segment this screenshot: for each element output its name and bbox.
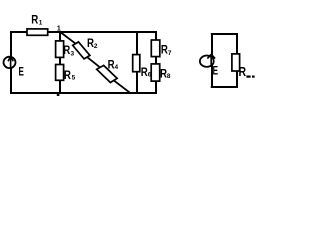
wire branch R6 vertical [136, 31, 138, 93]
label Rek subscript dash 2 [252, 76, 255, 78]
wire diagonal: R4 to bottom wire [113, 80, 130, 93]
resistor R2 [73, 42, 90, 59]
svg-text:6: 6 [148, 72, 152, 79]
resistor R5 [56, 65, 64, 81]
resistor R3 [56, 41, 64, 58]
resistor Rek (right circuit) [232, 54, 240, 71]
svg-text:R: R [31, 13, 38, 27]
wire top (left circuit) [10, 31, 157, 33]
resistor R4 [97, 65, 117, 82]
svg-text:1: 1 [39, 20, 43, 27]
resistor R6 [133, 55, 140, 72]
svg-text:E: E [213, 63, 218, 77]
resistor R8 [151, 64, 160, 81]
wire branch node1 vertical [59, 31, 61, 93]
svg-text:2: 2 [94, 43, 98, 50]
svg-text:8: 8 [167, 73, 171, 80]
svg-text:1: 1 [57, 26, 61, 33]
svg-text:4: 4 [115, 64, 119, 71]
svg-text:5: 5 [72, 74, 76, 81]
junction dot bottom of node branch [57, 93, 60, 96]
right circuit: wire left [211, 33, 213, 88]
resistor R1 [27, 29, 48, 35]
right circuit: wire right [236, 33, 238, 88]
svg-text:3: 3 [71, 51, 75, 58]
resistor R7 [151, 40, 160, 57]
label Rek subscript dash 1 [246, 76, 250, 78]
svg-text:E: E [19, 64, 24, 78]
svg-text:7: 7 [168, 50, 172, 57]
wire bottom (left circuit) [10, 92, 157, 94]
svg-text:R: R [63, 43, 70, 57]
right circuit: wire bottom [211, 86, 238, 88]
source E (right circuit) [200, 54, 215, 67]
svg-text:R: R [64, 68, 71, 82]
source E (left circuit) [4, 56, 16, 68]
wire right (left circuit) [155, 31, 157, 94]
wire diagonal: R2 to R4 [86, 56, 101, 68]
svg-text:R: R [239, 65, 247, 79]
wire diagonal: node 1 to R2 [60, 32, 76, 44]
right circuit: wire top [211, 33, 238, 35]
wire left (left circuit) [10, 31, 12, 94]
